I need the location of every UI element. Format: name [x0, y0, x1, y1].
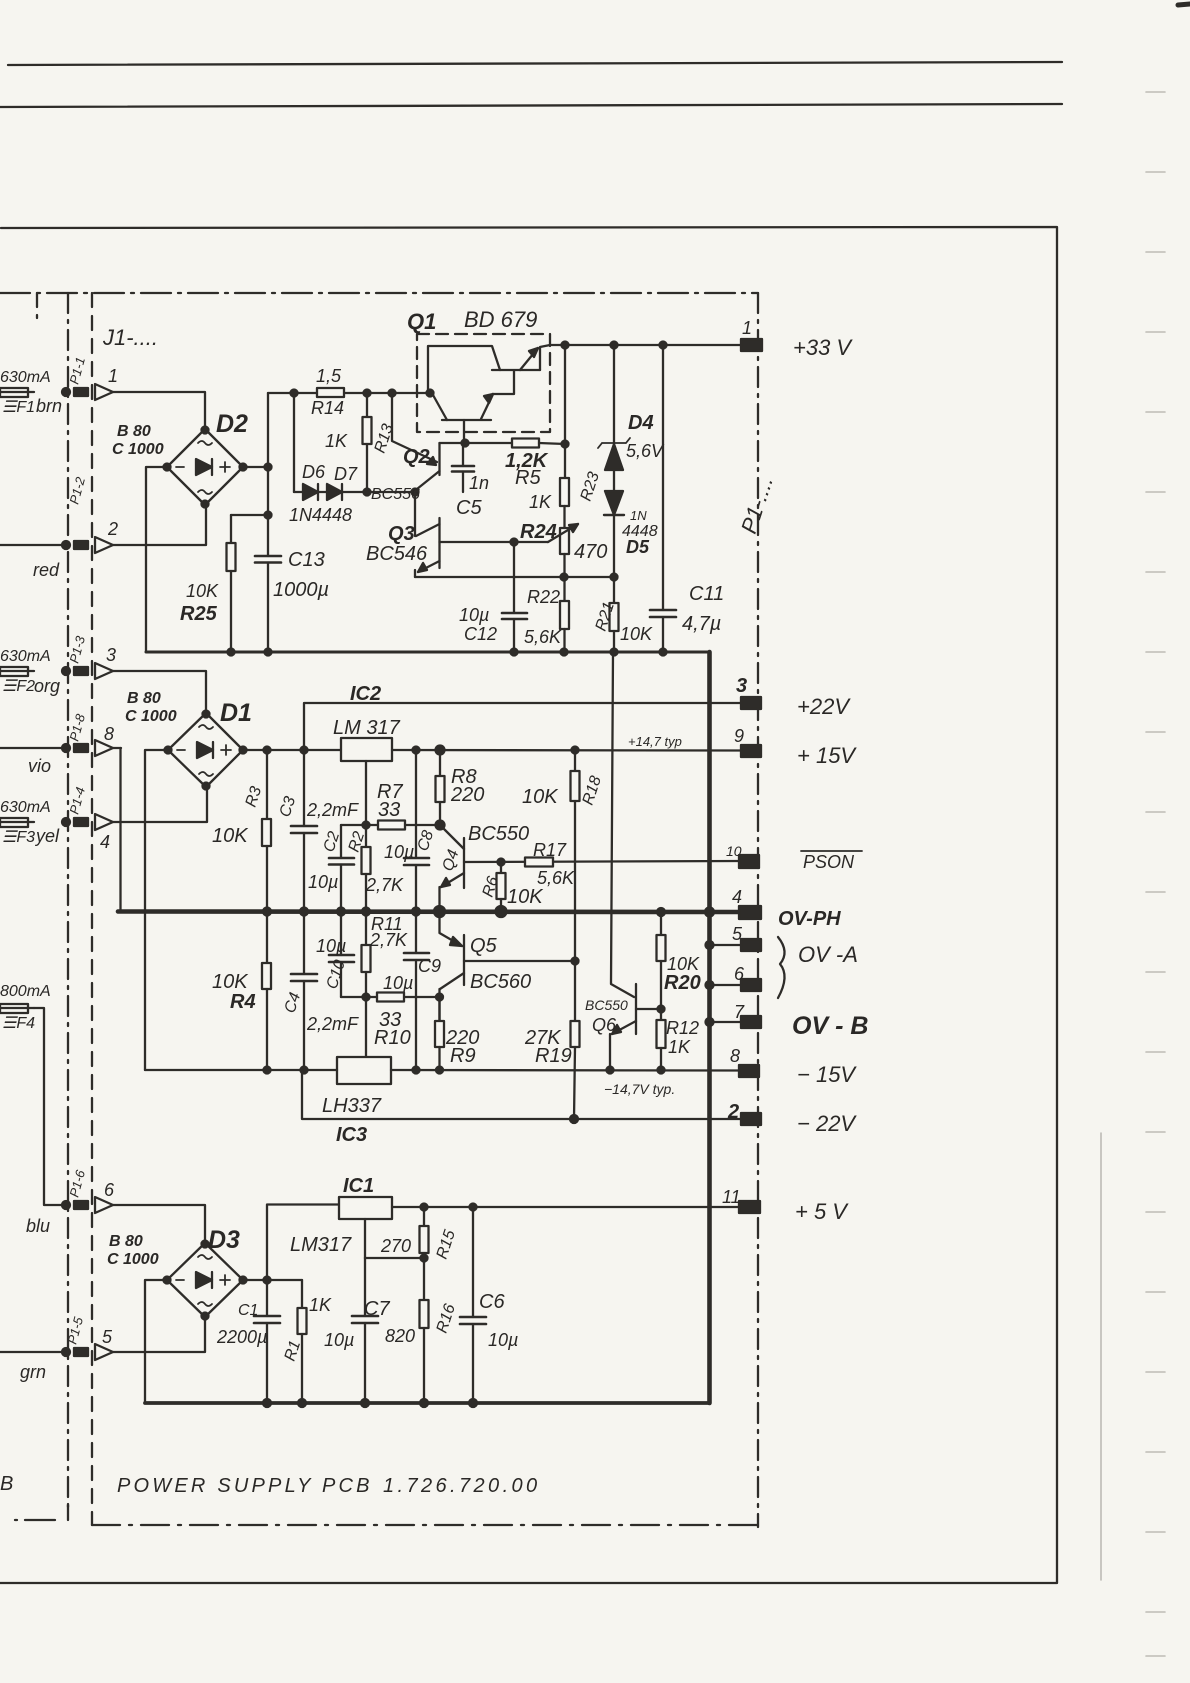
wire pin8 from edge	[0, 747, 62, 749]
capacitor C7	[352, 1258, 378, 1403]
svg-text:C6: C6	[479, 1291, 505, 1313]
resistor R16	[420, 1258, 429, 1403]
resistor R12	[657, 1009, 666, 1070]
corner mark top right	[1178, 4, 1190, 5]
svg-text:Q6: Q6	[592, 1015, 617, 1035]
svg-text:220: 220	[450, 784, 484, 806]
svg-text:4: 4	[732, 887, 742, 907]
resistor R6	[497, 862, 506, 912]
svg-text:☰F2: ☰F2	[2, 678, 35, 695]
svg-text:10: 10	[726, 843, 742, 859]
svg-text:270: 270	[380, 1236, 411, 1256]
label R20 10K	[664, 954, 701, 994]
label R5 1,2K	[505, 450, 549, 489]
node bus R20	[657, 908, 665, 916]
svg-text:OV-PH: OV-PH	[778, 908, 841, 930]
wire pin2 to bridge D2 bottom	[113, 504, 206, 545]
svg-text:C 1000: C 1000	[107, 1251, 159, 1268]
label R8 220	[450, 766, 484, 806]
svg-text:10K: 10K	[507, 886, 544, 908]
node rail D4	[611, 342, 618, 349]
node R7 R8	[436, 821, 445, 830]
wire +33V rail	[550, 344, 741, 346]
wire IC2 adj	[365, 761, 367, 825]
transistor Q6 BC550	[610, 652, 636, 1070]
wire Q3 emitter row	[415, 576, 614, 578]
svg-text:IC3: IC3	[336, 1124, 367, 1146]
capacitor C12	[502, 542, 527, 652]
svg-text:POWER SUPPLY PCB: POWER SUPPLY PCB	[117, 1475, 373, 1497]
label IC1 LM317	[290, 1175, 374, 1256]
node J1 pin8	[62, 744, 88, 752]
label R22 5,6K	[524, 587, 562, 647]
P1 pin 3 +22V	[736, 675, 761, 709]
svg-text:Q3: Q3	[388, 523, 415, 545]
resistor R17	[525, 858, 553, 867]
label R7 33	[377, 781, 403, 821]
svg-text:R20: R20	[664, 972, 701, 994]
svg-text:R5: R5	[515, 467, 541, 489]
P1 pin 10 PSON	[726, 843, 759, 868]
label C13 1000u	[273, 549, 329, 601]
svg-text:D4: D4	[628, 412, 654, 434]
svg-text:+ 5 V: + 5 V	[795, 1199, 849, 1224]
regulator IC1 LM317	[339, 1197, 392, 1219]
pin 4 arrow	[95, 814, 113, 852]
svg-text:R10: R10	[374, 1027, 411, 1049]
svg-text:OV -A: OV -A	[798, 942, 858, 967]
wire D2 plus to C13 column	[243, 466, 268, 468]
svg-text:10µ: 10µ	[384, 842, 414, 862]
svg-text:R4: R4	[230, 991, 256, 1013]
svg-text:grn: grn	[20, 1362, 46, 1382]
bottom return bus	[145, 1401, 710, 1405]
svg-text:10µ: 10µ	[324, 1330, 354, 1350]
svg-text:2,2mF: 2,2mF	[306, 800, 359, 820]
svg-text:− 15V: − 15V	[797, 1062, 857, 1087]
fuse F4	[0, 1004, 34, 1013]
node C1 top	[264, 1277, 271, 1284]
PCB dashed outline bottom	[92, 1524, 758, 1526]
node bus C8	[412, 908, 420, 916]
label R2 2,7K	[346, 829, 404, 895]
wire pin7 stub	[710, 1021, 742, 1023]
label C9 10u	[383, 956, 441, 993]
svg-text:−14,7V typ.: −14,7V typ.	[604, 1081, 675, 1097]
svg-text:D3: D3	[208, 1226, 240, 1254]
label R4 10K	[212, 971, 256, 1013]
node C13 top	[265, 464, 272, 471]
resistor R19	[571, 961, 580, 1119]
transistor Q5 BC560	[440, 912, 465, 1022]
label Q2 BC556	[371, 446, 430, 503]
svg-text:10µ: 10µ	[459, 605, 489, 625]
svg-text:R25: R25	[180, 603, 218, 625]
PCB dashed outline left	[91, 293, 93, 1525]
svg-text:10K: 10K	[667, 954, 700, 974]
node bus R21	[611, 649, 618, 656]
svg-text:J1-....: J1-....	[102, 325, 158, 350]
svg-text:C1: C1	[238, 1302, 258, 1319]
node row R4	[264, 1067, 271, 1074]
node row R12	[658, 1067, 665, 1074]
node bus C2	[337, 908, 345, 916]
svg-text:470: 470	[574, 541, 607, 563]
node bbus C7	[361, 1399, 369, 1407]
P1 pin 11 +5V	[722, 1187, 760, 1213]
label R23 1K	[529, 470, 603, 512]
svg-text:− 22V: − 22V	[797, 1111, 857, 1136]
svg-text:2,7K: 2,7K	[365, 875, 404, 895]
svg-text:BC546: BC546	[366, 543, 428, 565]
svg-text:4,7µ: 4,7µ	[682, 613, 721, 635]
node row C4	[301, 1067, 308, 1074]
label C1 2200u	[216, 1302, 267, 1347]
wire IC1 out to +5V	[392, 1206, 741, 1208]
svg-text:10K: 10K	[620, 624, 653, 644]
node row R9	[436, 1067, 443, 1074]
node J1 pin2	[62, 541, 88, 549]
node bus main vertical	[705, 908, 714, 917]
node C3 top	[301, 747, 308, 754]
node bus C13	[265, 649, 272, 656]
svg-text:☰F3: ☰F3	[2, 829, 35, 846]
node rail R23 riser	[562, 342, 569, 349]
wire D7 to Q2 base node	[367, 491, 415, 493]
svg-text:BC560: BC560	[470, 971, 531, 993]
P1 pin 6	[734, 964, 761, 991]
svg-text:2200µ: 2200µ	[216, 1327, 267, 1347]
label R21 10K	[593, 600, 653, 644]
svg-text:R14: R14	[311, 398, 344, 418]
resistor R1	[298, 1280, 307, 1403]
node row Q6	[607, 1067, 614, 1074]
wire pin4 to bridge D1 bottom	[113, 787, 207, 822]
svg-text:5,6K: 5,6K	[524, 627, 562, 647]
node J1 pin4	[62, 818, 88, 826]
pin 6 arrow	[95, 1180, 115, 1213]
node rail C11	[660, 342, 667, 349]
node bbus C6	[469, 1399, 477, 1407]
svg-text:10µ: 10µ	[316, 936, 346, 956]
fuse F3	[0, 818, 34, 827]
wire pin5 stub	[710, 944, 742, 946]
wire D2 minus to ground bus	[146, 467, 167, 652]
wire raw rail to Q1 base	[268, 392, 430, 394]
node C12 top	[511, 539, 518, 546]
node Q1 base drive	[462, 440, 469, 447]
label R10 33	[374, 1009, 411, 1049]
node bus C12	[511, 649, 518, 656]
label R1 1K	[282, 1295, 332, 1363]
svg-text:+14,7 typ: +14,7 typ	[628, 734, 682, 749]
faint fold line	[1100, 1133, 1102, 1580]
pin 8 arrow	[95, 724, 114, 756]
pin 1 arrow	[95, 366, 118, 400]
wire adj row	[365, 1257, 424, 1259]
label Q4 BC550	[440, 823, 530, 873]
wire IC1 input riser	[267, 1205, 339, 1281]
label Q3 BC546	[366, 523, 428, 565]
node out R18	[572, 747, 579, 754]
svg-text:3: 3	[106, 645, 116, 665]
svg-text:D6: D6	[302, 462, 326, 482]
svg-text:6: 6	[104, 1180, 115, 1200]
node R19 -22V	[570, 1115, 578, 1123]
node vbus pin5	[706, 941, 714, 949]
label C3 2,2mF	[277, 794, 359, 820]
node Q6 base R20 R12	[658, 1006, 665, 1013]
wire Q6 base	[636, 1008, 661, 1010]
label D3	[107, 1226, 240, 1268]
svg-text:vio: vio	[28, 756, 51, 776]
node bbus R16	[420, 1399, 428, 1407]
label R24 470	[520, 521, 607, 563]
label Q1 BD679	[407, 307, 537, 334]
svg-text:+22V: +22V	[797, 694, 851, 719]
page frame	[0, 227, 1057, 1583]
pin 3 arrow	[95, 645, 116, 679]
svg-text:7: 7	[734, 1002, 745, 1022]
label R19 27K	[524, 1027, 572, 1067]
label D1	[125, 690, 252, 727]
label R9 220	[445, 1027, 479, 1067]
svg-text:Q5: Q5	[470, 935, 498, 957]
resistor R20	[657, 912, 666, 1009]
svg-text:1,5: 1,5	[316, 366, 342, 386]
svg-text:IC1: IC1	[343, 1175, 374, 1197]
svg-text:5: 5	[102, 1327, 113, 1347]
wire pin1 to bridge D2	[113, 392, 205, 430]
svg-text:R9: R9	[450, 1045, 476, 1067]
node C10 row	[363, 994, 370, 1001]
svg-text:5,6V: 5,6V	[626, 441, 665, 461]
svg-text:630mA: 630mA	[0, 799, 51, 816]
svg-text:1N4448: 1N4448	[289, 505, 352, 525]
wire +22V takeoff	[304, 703, 741, 750]
wire Q2 collector to R5	[440, 442, 513, 444]
node vbus pin6	[706, 981, 714, 989]
node bus R25	[228, 649, 235, 656]
resistor R3	[262, 750, 271, 912]
svg-text:R12: R12	[666, 1018, 699, 1038]
trimmer R24	[548, 524, 578, 577]
label C6 10u	[479, 1291, 518, 1350]
svg-text:1K: 1K	[668, 1037, 691, 1057]
svg-text:C13: C13	[288, 549, 325, 571]
svg-text:1000µ: 1000µ	[273, 579, 329, 601]
node out C8	[413, 747, 420, 754]
main vertical zero bus	[707, 652, 712, 1403]
label Q5 BC560	[470, 935, 531, 993]
node adj	[363, 822, 370, 829]
node rail Q2 emitter	[389, 390, 396, 397]
label D5 1N4448	[622, 508, 658, 557]
capacitor C3	[291, 750, 317, 912]
svg-text:C12: C12	[464, 624, 497, 644]
svg-text:IC2: IC2	[350, 683, 381, 705]
svg-text:1: 1	[108, 366, 118, 386]
resistor R15	[420, 1207, 429, 1258]
svg-text:8: 8	[104, 724, 114, 744]
svg-text:10K: 10K	[212, 825, 249, 847]
svg-text:630mA: 630mA	[0, 369, 51, 386]
svg-text:LM 317: LM 317	[333, 717, 401, 739]
label R17 5,6K	[533, 840, 575, 888]
node J1 pin3	[62, 667, 88, 675]
svg-text:800mA: 800mA	[0, 983, 51, 1000]
resistor R8	[436, 750, 445, 825]
bridge rectifier D3	[164, 1241, 247, 1320]
resistor R7	[378, 821, 405, 830]
svg-text:Q2: Q2	[403, 446, 430, 468]
P1 connector dash-dot line	[757, 293, 759, 1527]
title text	[117, 1475, 541, 1497]
capacitor C4	[291, 912, 317, 1071]
wire zero riser to bus	[119, 748, 121, 912]
P1 pin 1	[741, 318, 762, 351]
wire adj row LM337	[341, 996, 440, 998]
J1 connector dash-dot line	[67, 293, 69, 1513]
wire pin6 stub	[710, 984, 742, 986]
svg-text:10K: 10K	[212, 971, 249, 993]
label D6 D7 1N4448	[289, 462, 358, 525]
svg-text:3: 3	[736, 675, 747, 697]
wire raw rail riser	[267, 393, 269, 467]
label PSON	[803, 852, 855, 872]
label C2 10u	[308, 829, 343, 892]
svg-text:10µ: 10µ	[383, 973, 413, 993]
wire F4 down to pin6	[34, 1008, 62, 1205]
wire D1 plus to IC2	[243, 749, 341, 751]
node Q5 collector row	[436, 994, 443, 1001]
label R12 1K	[666, 1018, 699, 1057]
resistor R9	[435, 997, 444, 1070]
svg-text:yel: yel	[34, 826, 60, 846]
node J1 pin6	[62, 1201, 88, 1209]
svg-text:1K: 1K	[529, 492, 552, 512]
node R24 R22	[561, 574, 568, 581]
svg-text:5,6K: 5,6K	[537, 868, 575, 888]
capacitor C1	[254, 1280, 280, 1403]
label Q6 BC550	[585, 997, 628, 1035]
svg-text:1.726.720.00: 1.726.720.00	[383, 1475, 541, 1497]
svg-text:B: B	[0, 1473, 13, 1495]
node rail R14 left	[291, 390, 298, 397]
fuse F1	[0, 388, 34, 397]
svg-text:9: 9	[734, 726, 744, 746]
svg-text:PSON: PSON	[803, 852, 855, 872]
svg-text:R22: R22	[527, 587, 560, 607]
svg-text:C 1000: C 1000	[125, 708, 177, 725]
transistor Q3 BC546	[415, 492, 440, 577]
svg-text:1N: 1N	[630, 508, 647, 523]
svg-text:B 80: B 80	[127, 690, 161, 707]
label C4 2,2mF	[282, 990, 359, 1034]
svg-text:BD 679: BD 679	[464, 307, 537, 332]
label C12 10u	[459, 605, 497, 644]
wire pin3 to bridge D1 top	[113, 671, 206, 713]
wire -22V row	[302, 1070, 741, 1119]
svg-text:BC550: BC550	[468, 823, 529, 845]
wire Q4 base row PSON	[464, 861, 741, 862]
wire LM337 adj riser	[365, 997, 367, 1057]
J1 line bottom corner	[15, 1505, 68, 1520]
svg-text:☰F4: ☰F4	[2, 1015, 35, 1032]
label C11 4,7u	[682, 583, 724, 635]
label R14 1,5	[311, 366, 344, 418]
wire LM337 row	[145, 1069, 337, 1071]
label F1 630mA brn	[0, 369, 62, 416]
resistor R14	[317, 388, 344, 397]
svg-text:blu: blu	[26, 1216, 50, 1236]
wire adj row	[341, 824, 440, 826]
brace OV-A	[778, 937, 785, 998]
svg-text:+ 15V: + 15V	[797, 743, 857, 768]
label C8 10u	[384, 828, 437, 862]
svg-text:4: 4	[100, 832, 110, 852]
svg-text:6: 6	[734, 964, 745, 984]
svg-text:33: 33	[378, 799, 400, 821]
capacitor C13	[255, 467, 281, 652]
node bus Q4 Q5	[434, 906, 445, 917]
svg-text:1n: 1n	[469, 473, 489, 493]
node bus R22	[561, 649, 568, 656]
label R13 1K	[325, 422, 397, 455]
svg-text:2,2mF: 2,2mF	[306, 1014, 359, 1034]
resistor R18	[571, 750, 580, 862]
wire LM337 out to -15V	[391, 1069, 741, 1072]
fuse F2	[0, 667, 34, 676]
label R3 10K	[212, 784, 265, 847]
svg-text:1K: 1K	[325, 431, 348, 451]
PCB dashed outline top	[0, 292, 758, 294]
svg-text:B 80: B 80	[109, 1233, 143, 1250]
svg-text:+33 V: +33 V	[793, 335, 853, 360]
svg-text:D5: D5	[626, 537, 650, 557]
diode D6	[294, 484, 318, 500]
regulator IC3 LH337	[337, 1057, 391, 1084]
svg-text:OV - B: OV - B	[792, 1012, 868, 1040]
wire Q5 base row	[464, 960, 575, 962]
svg-text:LH337: LH337	[322, 1095, 382, 1117]
svg-text:C9: C9	[418, 956, 441, 976]
node Q2 base C5	[412, 489, 419, 496]
wire pin5 to bridge D3 bottom	[113, 1317, 205, 1352]
P1 pin 8 -15V	[730, 1046, 759, 1077]
node out C6	[470, 1204, 477, 1211]
ground bus block1	[146, 651, 710, 654]
svg-text:C5: C5	[456, 497, 482, 519]
node out R8	[436, 746, 445, 755]
svg-text:10K: 10K	[186, 581, 219, 601]
svg-text:LM317: LM317	[290, 1234, 352, 1256]
P1 pin 4 OV-PH	[732, 887, 761, 919]
label D2	[112, 410, 248, 458]
wire D6 branch riser	[293, 393, 295, 492]
node Q5 base R18	[572, 958, 579, 965]
svg-text:D2: D2	[216, 410, 248, 438]
label IC2 LM317	[333, 683, 401, 739]
label C5 1n	[456, 473, 489, 519]
node R3 top	[264, 747, 271, 754]
svg-text:brn: brn	[36, 396, 62, 416]
node J1 pin5	[62, 1348, 88, 1356]
svg-text:1: 1	[742, 318, 752, 338]
svg-text:B 80: B 80	[117, 423, 151, 440]
node adj R15 R16	[421, 1255, 428, 1262]
diode D5	[604, 491, 624, 577]
